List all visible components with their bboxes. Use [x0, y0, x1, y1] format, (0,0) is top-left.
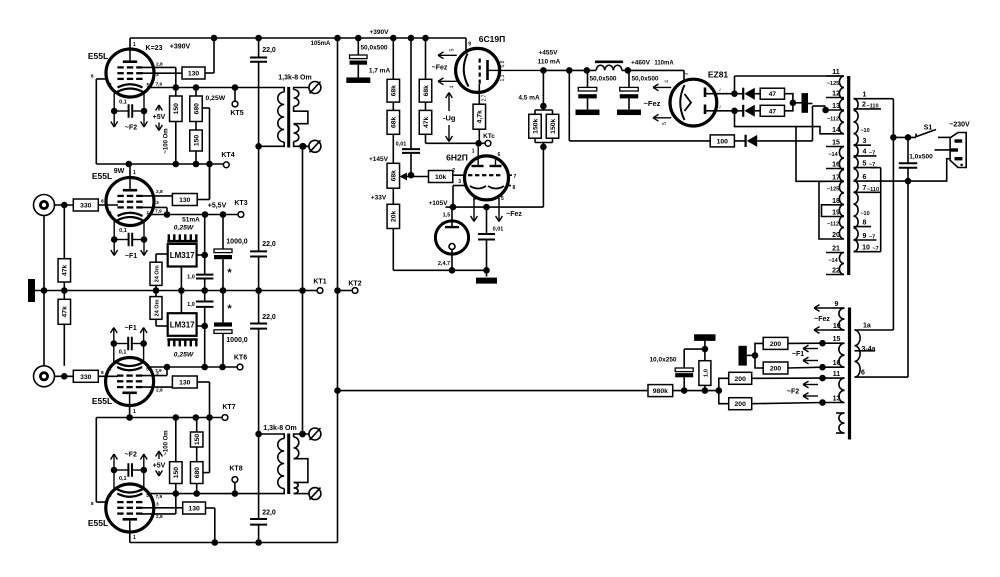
svg-text:LM317: LM317	[170, 251, 195, 260]
svg-text:1: 1	[472, 149, 475, 155]
svg-text:68k: 68k	[423, 85, 430, 97]
svg-text:1: 1	[133, 409, 136, 415]
svg-text:5: 5	[146, 367, 149, 373]
svg-text:6: 6	[861, 370, 865, 377]
svg-text:1,3k-8 Om: 1,3k-8 Om	[263, 425, 296, 432]
svg-text:24 Om: 24 Om	[154, 299, 160, 316]
svg-text:8: 8	[101, 370, 104, 376]
svg-text:10k: 10k	[435, 174, 447, 181]
svg-text:~100 Om: ~100 Om	[164, 128, 170, 153]
svg-text:50,0x500: 50,0x500	[631, 76, 658, 83]
svg-text:22: 22	[832, 268, 840, 275]
svg-text:150: 150	[194, 434, 201, 446]
svg-text:1,0: 1,0	[703, 369, 709, 377]
svg-text:68k: 68k	[391, 85, 398, 97]
svg-text:1,7 mA: 1,7 mA	[369, 68, 391, 75]
svg-text:~110: ~110	[867, 187, 879, 193]
svg-text:10,0x250: 10,0x250	[649, 357, 676, 364]
svg-text:~110: ~110	[866, 104, 878, 110]
svg-text:~10: ~10	[860, 211, 869, 217]
svg-text:8: 8	[91, 74, 94, 80]
svg-text:4: 4	[109, 367, 112, 373]
svg-text:10: 10	[833, 323, 841, 330]
svg-text:~F1: ~F1	[124, 325, 136, 332]
svg-text:16: 16	[833, 360, 841, 367]
svg-text:3: 3	[156, 502, 159, 508]
svg-text:~F1: ~F1	[125, 253, 137, 260]
svg-text:7,9: 7,9	[155, 209, 162, 215]
svg-text:2,7: 2,7	[482, 94, 488, 101]
svg-text:5: 5	[147, 212, 150, 218]
svg-text:+455V: +455V	[539, 50, 559, 57]
svg-text:47: 47	[769, 108, 777, 115]
svg-text:13: 13	[832, 103, 840, 110]
svg-text:3: 3	[156, 72, 159, 78]
svg-text:LM317: LM317	[170, 321, 195, 330]
svg-text:9: 9	[863, 233, 867, 240]
svg-text:3: 3	[863, 138, 867, 145]
svg-text:1,0: 1,0	[187, 302, 195, 308]
svg-text:15: 15	[832, 140, 840, 147]
svg-text:KT2: KT2	[348, 281, 361, 288]
svg-text:130: 130	[188, 506, 200, 513]
svg-text:150: 150	[193, 135, 200, 147]
svg-text:11: 11	[833, 371, 841, 378]
svg-text:*: *	[227, 267, 232, 279]
svg-text:7: 7	[514, 174, 517, 180]
svg-text:E55L: E55L	[92, 396, 112, 406]
svg-text:0,1: 0,1	[119, 476, 127, 482]
svg-text:22,0: 22,0	[262, 47, 276, 54]
svg-text:~Fez: ~Fez	[432, 65, 448, 72]
svg-text:1: 1	[863, 92, 867, 99]
svg-text:+5V: +5V	[153, 463, 166, 470]
svg-text:110mA: 110mA	[654, 61, 674, 67]
svg-text:3: 3	[156, 200, 159, 206]
svg-text:6: 6	[863, 174, 867, 181]
svg-text:+460V: +460V	[631, 60, 651, 67]
svg-text:5: 5	[863, 160, 867, 167]
svg-text:17: 17	[832, 174, 840, 181]
svg-text:1000,0: 1000,0	[226, 337, 248, 344]
svg-text:EZ81: EZ81	[708, 70, 729, 80]
svg-text:~112: ~112	[827, 222, 839, 228]
svg-text:S1: S1	[924, 125, 933, 132]
svg-text:12: 12	[832, 91, 840, 98]
svg-text:4: 4	[450, 85, 456, 88]
svg-text:21: 21	[832, 246, 840, 253]
svg-text:~7: ~7	[872, 246, 878, 252]
svg-text:6Н2П: 6Н2П	[446, 153, 468, 163]
svg-text:6: 6	[498, 152, 501, 158]
svg-text:47k: 47k	[423, 116, 430, 128]
svg-text:50,0x500: 50,0x500	[360, 45, 387, 52]
svg-text:0,01: 0,01	[396, 142, 407, 148]
svg-text:2,8: 2,8	[156, 62, 163, 68]
svg-text:0,25W: 0,25W	[174, 352, 194, 359]
svg-text:5: 5	[146, 493, 149, 499]
svg-text:4,5 mA: 4,5 mA	[518, 95, 540, 102]
svg-text:330: 330	[80, 374, 92, 381]
svg-text:~Fez: ~Fez	[644, 99, 661, 108]
svg-text:980k: 980k	[653, 388, 668, 395]
svg-text:~F1: ~F1	[792, 351, 804, 358]
svg-text:3: 3	[684, 72, 690, 75]
svg-text:~7: ~7	[869, 151, 875, 157]
svg-text:~F2: ~F2	[125, 125, 137, 132]
svg-text:7,9: 7,9	[155, 368, 162, 374]
svg-text:+105V: +105V	[429, 200, 449, 207]
svg-text:3-4a: 3-4a	[862, 346, 876, 353]
svg-text:0,25W: 0,25W	[174, 225, 194, 232]
svg-text:100: 100	[717, 138, 729, 145]
svg-text:51mA: 51mA	[182, 217, 200, 224]
svg-text:+5V: +5V	[153, 114, 166, 121]
svg-text:150k: 150k	[532, 118, 539, 133]
svg-text:4: 4	[473, 196, 476, 202]
svg-text:1,0x500: 1,0x500	[909, 154, 933, 161]
svg-text:110 mA: 110 mA	[538, 59, 561, 66]
svg-text:22,0: 22,0	[262, 510, 276, 517]
svg-text:*: *	[227, 303, 232, 315]
svg-text:1: 1	[133, 170, 136, 176]
svg-text:10: 10	[862, 245, 870, 252]
svg-text:22,0: 22,0	[262, 314, 276, 321]
svg-text:24 Om: 24 Om	[154, 265, 160, 282]
svg-text:150: 150	[173, 103, 180, 115]
svg-text:1,3: 1,3	[500, 74, 506, 81]
svg-text:~125: ~125	[827, 81, 839, 87]
svg-text:E55L: E55L	[92, 171, 112, 181]
svg-text:1a: 1a	[863, 323, 871, 330]
svg-text:~112: ~112	[827, 117, 839, 123]
svg-text:-Ug: -Ug	[443, 114, 456, 123]
svg-text:~F2: ~F2	[125, 452, 137, 459]
svg-text:+145V: +145V	[369, 156, 389, 163]
svg-text:3: 3	[458, 179, 461, 185]
svg-text:KT3: KT3	[234, 200, 247, 207]
svg-text:KT1: KT1	[313, 279, 326, 286]
svg-text:KT7: KT7	[222, 404, 235, 411]
svg-text:7,9: 7,9	[156, 82, 163, 88]
svg-text:KT5: KT5	[230, 110, 243, 117]
svg-text:KT4: KT4	[221, 152, 234, 159]
svg-text:1,3k-8 Om: 1,3k-8 Om	[278, 75, 311, 82]
svg-text:~100 Om: ~100 Om	[164, 430, 170, 455]
svg-text:5: 5	[147, 83, 150, 89]
svg-text:KT8: KT8	[229, 466, 242, 473]
svg-text:2: 2	[862, 102, 866, 109]
svg-text:8: 8	[101, 199, 104, 205]
svg-text:+5,5V: +5,5V	[208, 203, 227, 210]
svg-text:130: 130	[179, 197, 191, 204]
svg-text:11: 11	[832, 69, 840, 76]
svg-text:KT6: KT6	[234, 355, 247, 362]
svg-text:19: 19	[832, 210, 840, 217]
svg-text:KTc: KTc	[483, 133, 495, 140]
svg-text:4,7k: 4,7k	[477, 110, 484, 123]
svg-text:680: 680	[194, 467, 201, 479]
svg-text:0,1: 0,1	[119, 350, 127, 356]
svg-text:1000,0: 1000,0	[226, 239, 248, 246]
svg-text:E55L: E55L	[88, 51, 108, 61]
svg-text:105mA: 105mA	[311, 41, 331, 47]
svg-text:2: 2	[452, 168, 455, 174]
svg-text:18: 18	[832, 198, 840, 205]
svg-text:47: 47	[769, 91, 777, 98]
svg-text:~10: ~10	[860, 128, 869, 134]
svg-text:47k: 47k	[62, 306, 69, 318]
svg-text:+390V: +390V	[170, 44, 191, 51]
svg-text:1: 1	[133, 535, 136, 541]
svg-text:130: 130	[179, 380, 191, 387]
svg-text:5: 5	[662, 122, 668, 125]
svg-text:6С19П: 6С19П	[479, 34, 505, 44]
svg-text:680: 680	[193, 103, 200, 115]
svg-text:1,0: 1,0	[187, 275, 195, 281]
svg-text:0,1: 0,1	[119, 100, 127, 106]
svg-text:5: 5	[501, 196, 504, 202]
svg-text:8: 8	[863, 219, 867, 226]
svg-text:2,8: 2,8	[156, 388, 163, 394]
svg-text:0,1: 0,1	[119, 228, 127, 234]
svg-text:330: 330	[80, 203, 92, 210]
svg-text:~7: ~7	[869, 235, 875, 241]
svg-text:15: 15	[833, 336, 841, 343]
svg-text:9: 9	[468, 42, 471, 48]
svg-text:50,0x500: 50,0x500	[589, 76, 616, 83]
svg-text:~Fez: ~Fez	[506, 211, 522, 218]
svg-text:13: 13	[833, 396, 841, 403]
svg-text:E55L: E55L	[88, 518, 108, 528]
svg-text:2,8: 2,8	[156, 189, 163, 195]
svg-text:20k: 20k	[391, 211, 398, 223]
svg-text:1: 1	[133, 42, 136, 48]
svg-text:200: 200	[770, 341, 782, 348]
svg-text:8: 8	[513, 185, 516, 191]
svg-text:4: 4	[109, 212, 112, 218]
svg-text:~14: ~14	[828, 258, 838, 264]
svg-text:200: 200	[770, 366, 782, 373]
svg-text:9W: 9W	[114, 168, 125, 175]
svg-text:0,25W: 0,25W	[206, 95, 226, 102]
svg-text:9: 9	[835, 301, 839, 308]
svg-text:4: 4	[109, 493, 112, 499]
svg-text:16: 16	[832, 162, 840, 169]
svg-text:7,9: 7,9	[156, 494, 163, 500]
svg-text:+33V: +33V	[371, 195, 387, 202]
svg-text:~14: ~14	[828, 152, 838, 158]
svg-text:20: 20	[832, 232, 840, 239]
svg-text:7: 7	[863, 185, 867, 192]
svg-text:~230V: ~230V	[949, 122, 970, 129]
svg-text:130: 130	[188, 71, 200, 78]
svg-text:~: ~	[718, 105, 724, 109]
svg-text:~: ~	[718, 88, 724, 92]
svg-text:4: 4	[863, 149, 867, 156]
svg-text:150k: 150k	[550, 118, 557, 133]
svg-text:~F2: ~F2	[787, 389, 799, 396]
svg-text:22,0: 22,0	[262, 241, 276, 248]
svg-text:47k: 47k	[62, 264, 69, 276]
svg-text:14: 14	[832, 127, 840, 134]
svg-text:~Fez: ~Fez	[814, 316, 830, 323]
svg-text:1,5: 1,5	[443, 213, 451, 219]
svg-text:4: 4	[665, 80, 671, 83]
svg-text:2,4,7: 2,4,7	[438, 261, 450, 267]
svg-text:8: 8	[91, 501, 94, 507]
svg-text:6,8: 6,8	[500, 60, 506, 67]
svg-text:K=23: K=23	[146, 45, 163, 52]
svg-text:5: 5	[450, 48, 456, 51]
svg-text:68k: 68k	[391, 116, 398, 128]
svg-text:~7: ~7	[869, 162, 875, 168]
svg-text:0,01: 0,01	[493, 227, 504, 233]
svg-text:~125: ~125	[827, 187, 839, 193]
svg-text:4: 4	[109, 83, 112, 89]
svg-text:68k: 68k	[391, 170, 398, 182]
svg-text:+390V: +390V	[370, 29, 390, 36]
svg-text:2,8: 2,8	[156, 514, 163, 520]
svg-text:200: 200	[735, 401, 747, 408]
svg-text:150: 150	[173, 467, 180, 479]
svg-text:200: 200	[735, 376, 747, 383]
